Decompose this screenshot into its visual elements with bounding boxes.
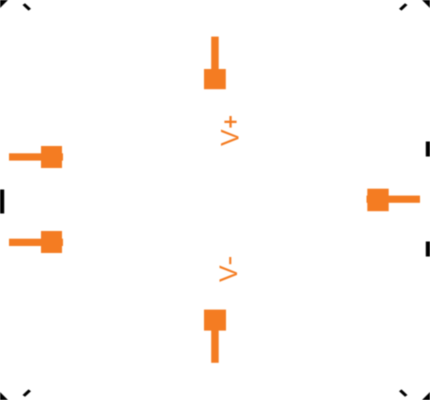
pin IN+ (upper left input pin) xyxy=(9,146,63,168)
corner mark top-right xyxy=(422,0,430,8)
tick bottom-left xyxy=(23,389,32,396)
label V+ xyxy=(216,116,244,146)
svg-text:V: V xyxy=(215,265,243,282)
pin V+ (top power pin) xyxy=(204,37,226,90)
edge mark left (at OUT row) xyxy=(0,190,4,214)
corner mark top-left xyxy=(0,0,8,8)
pin V- (bottom power pin) xyxy=(204,310,226,363)
pad IN+ xyxy=(41,146,62,168)
corner mark bottom-left xyxy=(0,392,8,400)
tick top-left xyxy=(23,3,32,10)
svg-text:V: V xyxy=(216,129,244,146)
tick top-right xyxy=(399,3,408,10)
wire V- xyxy=(211,330,219,363)
tick bottom-right xyxy=(399,389,408,396)
pin OUT (right output pin) xyxy=(367,189,421,212)
edge mark right upper (at IN+ row) xyxy=(426,142,430,157)
edge mark right lower (at IN- row) xyxy=(426,242,430,257)
wire IN+ xyxy=(9,153,63,160)
wire IN- xyxy=(9,239,63,246)
corner mark bottom-right xyxy=(422,392,430,400)
pad OUT xyxy=(367,189,388,212)
pin IN- (lower left input pin) xyxy=(9,231,63,253)
pad IN- xyxy=(41,231,62,253)
label V- xyxy=(215,257,243,282)
wire V+ xyxy=(211,37,219,70)
pad V- xyxy=(204,310,226,331)
pad V+ xyxy=(204,69,226,89)
wire OUT xyxy=(367,196,421,203)
